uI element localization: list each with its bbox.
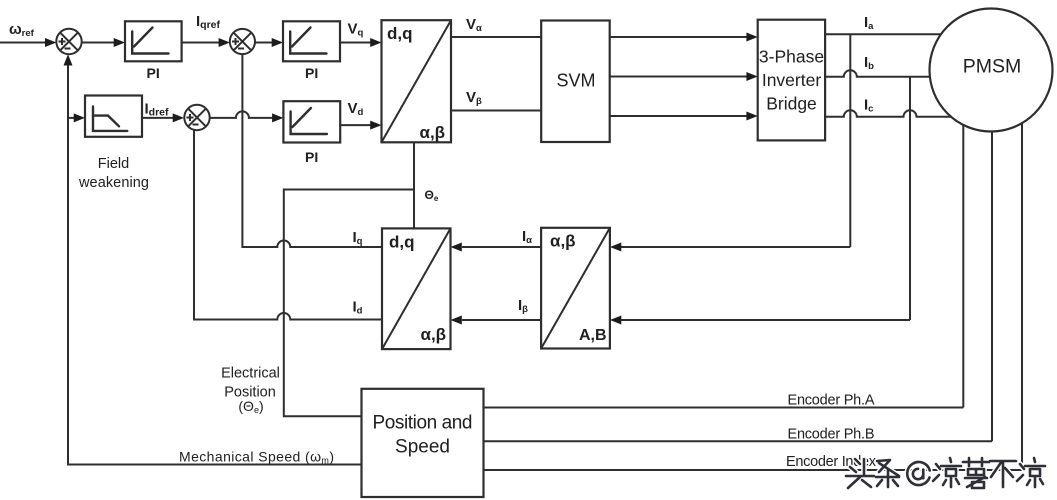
summing junction S3 — [184, 105, 209, 130]
summing junction S1 — [56, 29, 81, 54]
wire speed feedback vertical to S1 — [64, 54, 362, 464]
svg-text:Encoder Ph.A: Encoder Ph.A — [788, 393, 875, 409]
svg-text:Inverter: Inverter — [762, 70, 821, 90]
svg-text:α,β: α,β — [421, 325, 447, 344]
svg-text:Vd: Vd — [348, 100, 364, 118]
svg-text:SVM: SVM — [556, 71, 595, 91]
svg-text:Vq: Vq — [348, 21, 364, 39]
svg-text:α,β: α,β — [550, 232, 576, 251]
svg-text:PI: PI — [305, 149, 318, 165]
current tap vertical from Ia — [849, 34, 851, 247]
svg-text:Iβ: Iβ — [518, 297, 528, 315]
current tap vertical from Ib — [909, 77, 911, 320]
encoder phase B vertical from PMSM — [991, 132, 993, 442]
Clarke transform block alpha-beta from A,B — [541, 228, 610, 349]
wire Ia inverter to PMSM — [825, 33, 941, 35]
svg-text:Position and: Position and — [373, 413, 473, 434]
SVM block — [541, 21, 610, 143]
svg-text:Iq: Iq — [353, 229, 363, 247]
svg-text:Speed: Speed — [395, 437, 450, 458]
Park transform block dq to alpha-beta (voltages) — [382, 20, 452, 142]
wire Id feedback Park2 to S3 with hop at x=283.8 — [194, 130, 382, 319]
summing junction S2 — [230, 29, 255, 54]
wire Ialpha Clarke to Park2 — [451, 243, 542, 252]
svg-text:A,B: A,B — [579, 327, 607, 344]
wire encoder index — [484, 469, 1023, 471]
svg-text:Field: Field — [98, 156, 129, 172]
PI block q-axis current controller — [283, 21, 340, 61]
wire Ibeta Clarke to Park2 — [451, 316, 542, 325]
wire Iq feedback Park2 to S2 with hop at x=283.8 — [242, 54, 382, 247]
wire S2 to PI q — [255, 38, 283, 47]
PMSM motor circle — [930, 9, 1053, 132]
wire encoder phase B — [484, 440, 993, 442]
svg-text:Ic: Ic — [864, 97, 873, 115]
svg-text:Electrical: Electrical — [221, 366, 280, 382]
svg-text:PMSM: PMSM — [963, 56, 1022, 78]
wire FW to S3 — [142, 113, 184, 122]
PI block d-axis current controller — [283, 101, 340, 142]
wire Ic inverter to PMSM with hops at x=850 and x=910 — [825, 110, 951, 117]
svg-text:d,q: d,q — [387, 24, 413, 43]
wire SVM to inverter phase c — [610, 112, 758, 121]
Position and Speed block — [362, 389, 484, 497]
svg-text:Θe: Θe — [425, 188, 439, 203]
wire Ib inverter to PMSM with hop at x=850 — [825, 70, 930, 77]
svg-text:Mechanical Speed (ωm): Mechanical Speed (ωm) — [179, 449, 334, 466]
svg-text:Iα: Iα — [522, 228, 532, 246]
Park transform block currents dq from alpha-beta — [382, 228, 451, 349]
svg-text:Iqref: Iqref — [196, 13, 221, 31]
svg-text:Idref: Idref — [145, 101, 170, 119]
wire encoder phase A — [484, 407, 964, 409]
svg-text:α,β: α,β — [420, 123, 446, 142]
wire Ib feedback to Clarke — [610, 316, 910, 325]
encoder phase A vertical from PMSM — [962, 125, 964, 408]
svg-text:Id: Id — [353, 299, 363, 317]
svg-text:d,q: d,q — [389, 233, 415, 252]
wire Valpha — [451, 36, 542, 38]
label Electrical Position (theta-e) — [221, 366, 280, 416]
wire omega_ref input — [0, 38, 56, 47]
svg-text:Ia: Ia — [864, 14, 874, 32]
svg-text:Encoder Ph.B: Encoder Ph.B — [788, 427, 875, 443]
svg-text:PI: PI — [147, 65, 160, 81]
wire PI d to Park1 — [340, 121, 381, 130]
wire theta-e vertical between Park blocks — [413, 142, 415, 228]
svg-text:Vβ: Vβ — [466, 89, 482, 107]
PI block speed controller — [125, 21, 182, 61]
Field weakening block — [85, 96, 142, 137]
watermark 头条@凉薯不凉 — [846, 458, 1045, 488]
encoder index vertical from PMSM — [1021, 123, 1023, 470]
wire FW input stub — [68, 113, 85, 122]
svg-text:ωref: ωref — [9, 21, 35, 39]
svg-text:PI: PI — [305, 65, 318, 81]
wire SVM to inverter phase b — [610, 72, 758, 81]
wire SVM to inverter phase a — [610, 33, 758, 42]
wire theta-e branch to Position and Speed — [284, 190, 414, 417]
wire S1 to PI speed — [82, 38, 125, 47]
svg-text:weakening: weakening — [78, 175, 149, 191]
3-phase inverter bridge block — [758, 20, 825, 141]
wire S3 to PI d with hop at x=242.4 — [210, 111, 284, 122]
svg-text:Vα: Vα — [466, 16, 482, 34]
wire PI q to Park1 — [340, 38, 382, 47]
svg-text:(Θe): (Θe) — [238, 398, 263, 415]
wire Ia feedback to Clarke — [610, 243, 850, 252]
svg-text:Bridge: Bridge — [766, 94, 817, 114]
wire Vbeta — [451, 110, 542, 112]
svg-text:3-Phase: 3-Phase — [759, 47, 824, 67]
svg-text:Ib: Ib — [864, 54, 874, 72]
wire PI speed to S2 — [182, 38, 230, 47]
